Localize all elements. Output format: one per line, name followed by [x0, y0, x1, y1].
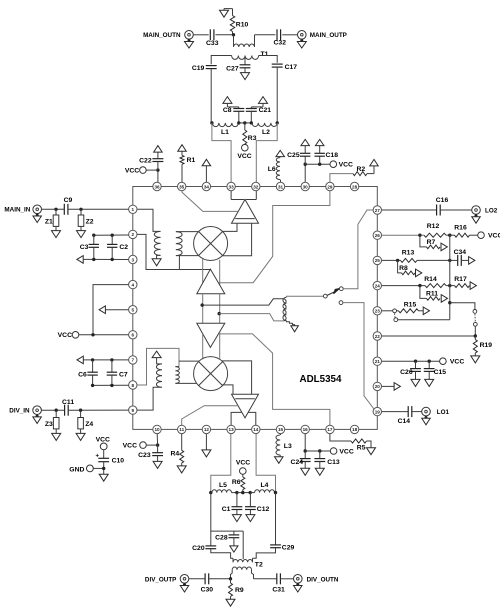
wire C14 to LO1: [412, 411, 422, 413]
svg-text:R13: R13: [402, 250, 415, 257]
svg-text:27: 27: [375, 208, 381, 213]
wire C30 to R9 node: [209, 577, 233, 580]
capacitor C22 with VCC at pin 36: [125, 152, 164, 182]
svg-text:7: 7: [132, 358, 135, 363]
ferrite Z4: [78, 410, 94, 433]
ferrite Z3: [45, 410, 59, 433]
transformer T2 secondary: [232, 567, 251, 570]
pin 7: [129, 356, 137, 364]
svg-text:15: 15: [278, 427, 284, 432]
svg-text:T2: T2: [255, 561, 263, 568]
capacitor C14: [398, 406, 412, 425]
pin 29: [326, 182, 334, 190]
transformer T1 secondary: [232, 56, 259, 60]
svg-text:R10: R10: [236, 22, 249, 29]
svg-text:C6: C6: [78, 372, 87, 379]
LO transformer right winding: [283, 297, 286, 320]
wire L1 row to pin 33: [212, 123, 231, 182]
internal transformer primary top: [154, 231, 160, 255]
ground above C8: [223, 97, 239, 107]
ground below LO1: [422, 416, 431, 425]
svg-text:MAIN_IN: MAIN_IN: [4, 207, 30, 214]
ground below C15: [425, 379, 434, 386]
svg-text:C16: C16: [436, 197, 449, 204]
capacitor C12: [245, 493, 269, 515]
inductor L2: [252, 121, 279, 136]
inductor L1: [210, 121, 240, 136]
svg-text:VCC: VCC: [123, 443, 137, 450]
svg-text:C29: C29: [282, 544, 295, 551]
wire pin 7 row with left arrow: [77, 356, 129, 364]
svg-text:17: 17: [327, 427, 333, 432]
wire pin 22 row: [382, 334, 477, 337]
pin 18: [350, 425, 358, 433]
resistor R6: [232, 474, 245, 492]
ferrite Z2: [78, 209, 94, 230]
wire pin 2 to C3 C2 tops: [92, 234, 128, 237]
svg-text:VCC: VCC: [58, 332, 72, 339]
ground below MAIN_OUTP: [297, 39, 306, 48]
op-amp top amplifier: [232, 200, 259, 224]
wire pin 23 to switch contact: [382, 310, 393, 312]
ground below C26: [411, 379, 420, 386]
capacitor C3: [80, 235, 99, 259]
resistor R5 from pin 17: [330, 434, 371, 452]
capacitor C2: [107, 235, 128, 259]
svg-text:4: 4: [132, 282, 135, 287]
svg-text:L5: L5: [219, 482, 227, 489]
svg-text:31: 31: [278, 184, 284, 189]
svg-text:C19: C19: [192, 65, 205, 72]
ground below C10: [99, 474, 108, 481]
pin 36: [153, 182, 161, 190]
wire pin 8 to internal transformer bottom: [137, 348, 179, 385]
pin 25: [373, 256, 381, 264]
svg-text:C13: C13: [327, 459, 340, 466]
internal transformer secondary top: [176, 232, 182, 256]
pin 21: [373, 357, 381, 365]
ground below C13: [315, 468, 324, 475]
wire pin 3 row with left arrow: [77, 256, 129, 264]
LO bus upper segments: [203, 259, 220, 285]
resistor R19: [473, 336, 492, 356]
pin 1: [129, 205, 137, 213]
VCC terminal right of R16: [478, 232, 500, 240]
wire pin 24 to R14: [382, 284, 425, 287]
svg-text:R7: R7: [427, 239, 436, 246]
svg-text:DIV_IN: DIV_IN: [9, 408, 30, 415]
wire C11 to pin 9: [68, 409, 128, 412]
ground below MAIN_OUTN: [185, 39, 194, 48]
svg-text:C24: C24: [291, 459, 304, 466]
svg-text:23: 23: [375, 309, 381, 314]
svg-text:R1: R1: [187, 157, 196, 164]
svg-text:T1: T1: [261, 51, 269, 58]
wire mixer2 to bottom amp lower: [222, 385, 233, 394]
label DIV_OUTP and connector: [145, 575, 189, 584]
svg-text:R8: R8: [399, 265, 408, 272]
op-amp LO buffer down: [197, 323, 225, 347]
svg-text:L4: L4: [261, 482, 269, 489]
wire T2 right to C31: [254, 578, 277, 580]
wire C17 down to L2 row: [276, 67, 278, 123]
svg-text:C31: C31: [272, 586, 285, 593]
pin 32: [252, 182, 260, 190]
pin 28: [350, 182, 358, 190]
capacitor C7: [107, 360, 128, 386]
wire branch to C28 and T2 center tap: [211, 531, 243, 559]
switch lever: [327, 288, 340, 295]
capacitor C29: [270, 544, 294, 551]
ground below R9: [226, 599, 235, 606]
wire T2 secondary left down: [231, 570, 233, 579]
svg-text:R2: R2: [357, 166, 366, 173]
ground above R1: [178, 145, 187, 152]
connector LO2 and label: [472, 206, 498, 215]
capacitor C13: [314, 451, 339, 468]
pin 8: [129, 381, 137, 389]
wire pin 19 to C14: [382, 411, 409, 413]
ground above C22: [154, 146, 163, 153]
wire pin 14 down to L4 node: [256, 434, 275, 493]
svg-text:C34: C34: [454, 249, 467, 256]
pin 10: [153, 425, 161, 433]
svg-text:C33: C33: [206, 40, 219, 47]
pin 20: [373, 382, 381, 390]
ground below Z4: [76, 433, 85, 440]
svg-text:3: 3: [132, 257, 135, 262]
svg-text:18: 18: [352, 427, 358, 432]
capacitor C18: [315, 146, 339, 165]
svg-text:R5: R5: [357, 445, 366, 452]
svg-text:2: 2: [132, 232, 135, 237]
svg-text:C32: C32: [274, 40, 287, 47]
capacitor C21: [246, 107, 271, 123]
pin 12: [202, 425, 210, 433]
svg-text:C20: C20: [192, 545, 205, 552]
LO bus middle segments: [203, 294, 220, 324]
ground below MAIN_IN: [33, 214, 42, 223]
resistor R12: [424, 223, 451, 237]
IC label ADL5354: [300, 374, 342, 385]
wire L4 node down to C29: [275, 493, 277, 545]
IC ADL5354 package outline: [133, 187, 377, 430]
resistor R8 test branch: [398, 260, 415, 274]
connector LO1 and label: [422, 407, 450, 416]
svg-text:32: 32: [253, 184, 259, 189]
svg-text:DIV_OUTP: DIV_OUTP: [145, 576, 177, 583]
wire bottom amp to pin 14: [248, 412, 256, 425]
svg-text:C1: C1: [222, 506, 231, 513]
capacitor C15: [424, 361, 446, 379]
svg-text:C15: C15: [434, 369, 447, 376]
svg-text:20: 20: [375, 384, 381, 389]
wire secondary to mixer1 top: [176, 231, 198, 233]
wire C9 to pin 1: [68, 208, 129, 211]
wire junction to mixer2 upper: [179, 360, 199, 362]
resistor R15: [397, 301, 424, 312]
svg-text:25: 25: [375, 258, 381, 263]
svg-text:C27: C27: [226, 66, 239, 73]
svg-text:26: 26: [375, 233, 381, 238]
pin 16: [301, 425, 309, 433]
svg-text:C22: C22: [139, 158, 152, 165]
ground below DIV_IN: [33, 415, 42, 424]
resistor R13: [401, 250, 452, 263]
wire top amp to mixer1 upper: [223, 223, 237, 231]
ground of LO transformer: [291, 326, 299, 332]
wire C33 to T1/R10 junction: [216, 33, 236, 43]
ground below pin 12: [202, 434, 211, 457]
wire pin 27 to C16: [382, 209, 437, 211]
pin 9: [129, 406, 137, 414]
capacitor C25: [287, 146, 310, 165]
capacitor C11: [62, 399, 74, 416]
wire pin 32 to top amp: [246, 191, 257, 200]
svg-text:24: 24: [375, 283, 381, 288]
wire pin 8 row: [91, 384, 129, 387]
VCC terminal right of C18: [330, 161, 353, 169]
svg-text:R12: R12: [427, 223, 440, 230]
pin 17: [326, 425, 334, 433]
ground below L3: [275, 457, 284, 464]
svg-text:LO2: LO2: [485, 207, 498, 214]
wire T2 secondary right down: [252, 570, 254, 579]
ground below C24: [301, 468, 310, 475]
capacitor C19: [192, 65, 217, 72]
svg-text:R11: R11: [426, 291, 438, 298]
svg-text:16: 16: [303, 427, 309, 432]
ground below C1: [232, 515, 241, 522]
svg-text:Z1: Z1: [45, 219, 53, 226]
svg-text:MAIN_OUTN: MAIN_OUTN: [143, 32, 181, 39]
wire C31 to DIV_OUTN: [280, 578, 293, 580]
wire top amp to mixer1 lower: [222, 223, 251, 256]
svg-text:Z2: Z2: [86, 219, 94, 226]
pin 24: [373, 281, 381, 289]
svg-text:R9: R9: [235, 587, 244, 594]
connector DIV_OUTN and label: [294, 575, 339, 584]
wire L5 node down to C20: [210, 493, 212, 546]
wire bottom amp to pin 13: [231, 412, 242, 425]
capacitor C26: [400, 361, 421, 379]
svg-text:DIV_OUTN: DIV_OUTN: [307, 576, 339, 583]
wire C19 down to L1 row: [210, 69, 212, 123]
label DIV_IN and connector: [9, 406, 41, 415]
svg-text:VCC: VCC: [237, 153, 251, 160]
VCC terminal right of C13: [330, 448, 354, 456]
ground below C12: [246, 515, 255, 522]
switch common contact: [323, 294, 327, 298]
wire secondary to mixer1 bottom: [176, 255, 199, 257]
wire LO tap upper to transformer: [201, 299, 284, 307]
op-amp LO buffer up: [197, 269, 225, 294]
resistor R11 test branch: [420, 286, 440, 301]
capacitor C10 polarized: [95, 453, 124, 474]
pin 23: [373, 307, 381, 315]
svg-text:VCC: VCC: [339, 448, 353, 455]
pin 33: [227, 182, 235, 190]
wire pin 21 to VCC with C26 C15: [382, 360, 440, 363]
svg-text:1: 1: [132, 207, 135, 212]
svg-text:R17: R17: [454, 276, 467, 283]
svg-text:14: 14: [253, 427, 259, 432]
wire pin 5 with left arrow: [99, 306, 128, 314]
arrow right of R17: [470, 282, 476, 290]
ferrite Z1: [45, 209, 59, 230]
wire pin 13 down to L5 node: [211, 434, 231, 493]
ground below R19: [471, 356, 480, 363]
pin 35: [178, 182, 186, 190]
svg-text:R3: R3: [248, 135, 257, 142]
internal transformer primary bottom: [156, 364, 162, 387]
inductor L5: [209, 482, 238, 494]
svg-text:L3: L3: [284, 443, 292, 450]
svg-text:28: 28: [352, 184, 358, 189]
arrow right of C34: [469, 257, 475, 265]
inductor L6 at pin 31: [268, 157, 281, 183]
resistor R1 at pin 35: [180, 151, 196, 182]
ground arrow above pin 34: [202, 159, 211, 182]
ground below Z3: [52, 433, 61, 440]
resistor R4 below pin 11: [170, 434, 183, 466]
ground above C25: [301, 139, 310, 145]
LO bus lower segments: [203, 332, 220, 359]
ground below DIV_OUTN: [294, 583, 303, 592]
svg-text:R19: R19: [480, 342, 493, 349]
svg-text:C14: C14: [398, 418, 411, 425]
wire pin 4 to VCC node: [93, 285, 129, 335]
svg-text:R4: R4: [170, 451, 179, 458]
svg-text:6: 6: [132, 333, 135, 338]
inductor L3 below pin 15: [276, 434, 292, 457]
connector MAIN_OUTP and label: [298, 31, 347, 40]
ground below C23: [153, 461, 162, 468]
wire LO chain to pin 17 internal: [220, 334, 330, 425]
capacitor C8: [223, 107, 244, 123]
svg-text:C7: C7: [119, 372, 128, 379]
pin 11: [178, 425, 186, 433]
capacitor C28: [215, 531, 239, 546]
GND terminal: [69, 465, 105, 474]
wire pin 9 to internal transformer: [137, 387, 161, 410]
capacitor C9: [64, 197, 73, 215]
wire secondary bottom to mixer2: [175, 382, 196, 384]
wire pin 33 to top amp: [231, 191, 244, 200]
svg-text:9: 9: [132, 408, 135, 413]
svg-text:36: 36: [154, 184, 160, 189]
switch 2 contacts with dashed link: [473, 310, 477, 337]
wire C29 to T2 primary right: [253, 548, 276, 559]
svg-text:30: 30: [303, 184, 309, 189]
resistor R2 from pin 29: [330, 166, 374, 182]
svg-text:19: 19: [375, 409, 381, 414]
capacitor C17: [272, 64, 298, 71]
label MAIN_IN and connector: [4, 205, 41, 214]
svg-text:10: 10: [154, 427, 160, 432]
pin 30: [301, 182, 309, 190]
resistor R7 test branch: [420, 235, 440, 249]
LO transformer termination resistor: [286, 321, 294, 326]
wire pin 1 to internal transformer: [137, 209, 160, 231]
resistor R3: [243, 123, 257, 144]
svg-text:VCC: VCC: [236, 459, 250, 466]
svg-text:C11: C11: [62, 399, 74, 406]
svg-text:L1: L1: [221, 129, 229, 136]
svg-text:VCC: VCC: [96, 436, 110, 443]
pin 22: [373, 332, 381, 340]
svg-text:C3: C3: [80, 244, 89, 251]
resistor R16 to VCC: [450, 225, 478, 238]
svg-text:11: 11: [179, 427, 184, 432]
wire pin 35 to top amp input: [182, 191, 238, 212]
svg-text:33: 33: [229, 184, 235, 189]
wire C20 to T2 primary left: [211, 549, 233, 559]
pin 31: [276, 182, 284, 190]
svg-text:MAIN_OUTP: MAIN_OUTP: [310, 32, 347, 39]
svg-text:R14: R14: [424, 276, 437, 283]
svg-text:C23: C23: [138, 452, 151, 459]
pin 13: [227, 425, 235, 433]
node R6 bottom: [237, 491, 252, 494]
VCC terminal pin 21: [440, 358, 465, 366]
wire L2 row to pin 32: [256, 123, 277, 182]
capacitor C16: [436, 197, 449, 216]
svg-text:8: 8: [132, 383, 135, 388]
wire MAIN_IN to C9: [42, 208, 65, 211]
wire pin 29 internal: [219, 191, 330, 283]
capacitor C30: [201, 573, 214, 593]
label MAIN_OUTN and connector J-MAIN_OUTN: [143, 31, 193, 40]
wire T1 secondary right to C17: [259, 56, 278, 63]
ground below R4: [177, 466, 186, 473]
VCC terminal to pin 10 via C23: [123, 434, 160, 453]
svg-text:21: 21: [375, 359, 381, 364]
svg-text:29: 29: [327, 184, 333, 189]
resistor R14: [424, 276, 451, 288]
capacitor C34: [450, 249, 469, 266]
capacitor C33: [206, 29, 219, 47]
svg-text:C18: C18: [326, 152, 339, 159]
pin 3: [129, 255, 137, 263]
capacitor C32: [274, 29, 287, 46]
switch contact to pin 27: [339, 210, 373, 291]
wire T1 to C32: [255, 34, 276, 36]
svg-text:C21: C21: [259, 107, 272, 114]
svg-text:LO1: LO1: [437, 409, 450, 416]
wire LO tap lower to transformer: [218, 312, 284, 321]
wire C32 to MAIN_OUTP: [282, 34, 297, 36]
svg-text:34: 34: [204, 184, 210, 189]
wire pin 20 with right arrow: [382, 385, 394, 387]
ground above R2: [370, 159, 379, 166]
svg-text:13: 13: [229, 427, 235, 432]
svg-text:Z4: Z4: [85, 421, 93, 428]
ground above L6: [276, 150, 285, 156]
pin 34: [202, 182, 210, 190]
switch dashed link and lower contact: [394, 313, 398, 321]
pin 5: [129, 306, 137, 314]
wire pin 30 to VCC with C25 C18: [304, 163, 331, 183]
svg-text:R16: R16: [454, 225, 467, 232]
svg-text:C8: C8: [223, 107, 232, 114]
resistor R17: [450, 276, 470, 288]
capacitor C1: [222, 493, 243, 515]
capacitor C23: [138, 452, 163, 461]
arrow right of pin 20: [394, 383, 400, 391]
ground above C18: [315, 139, 324, 145]
svg-text:C28: C28: [215, 534, 228, 541]
